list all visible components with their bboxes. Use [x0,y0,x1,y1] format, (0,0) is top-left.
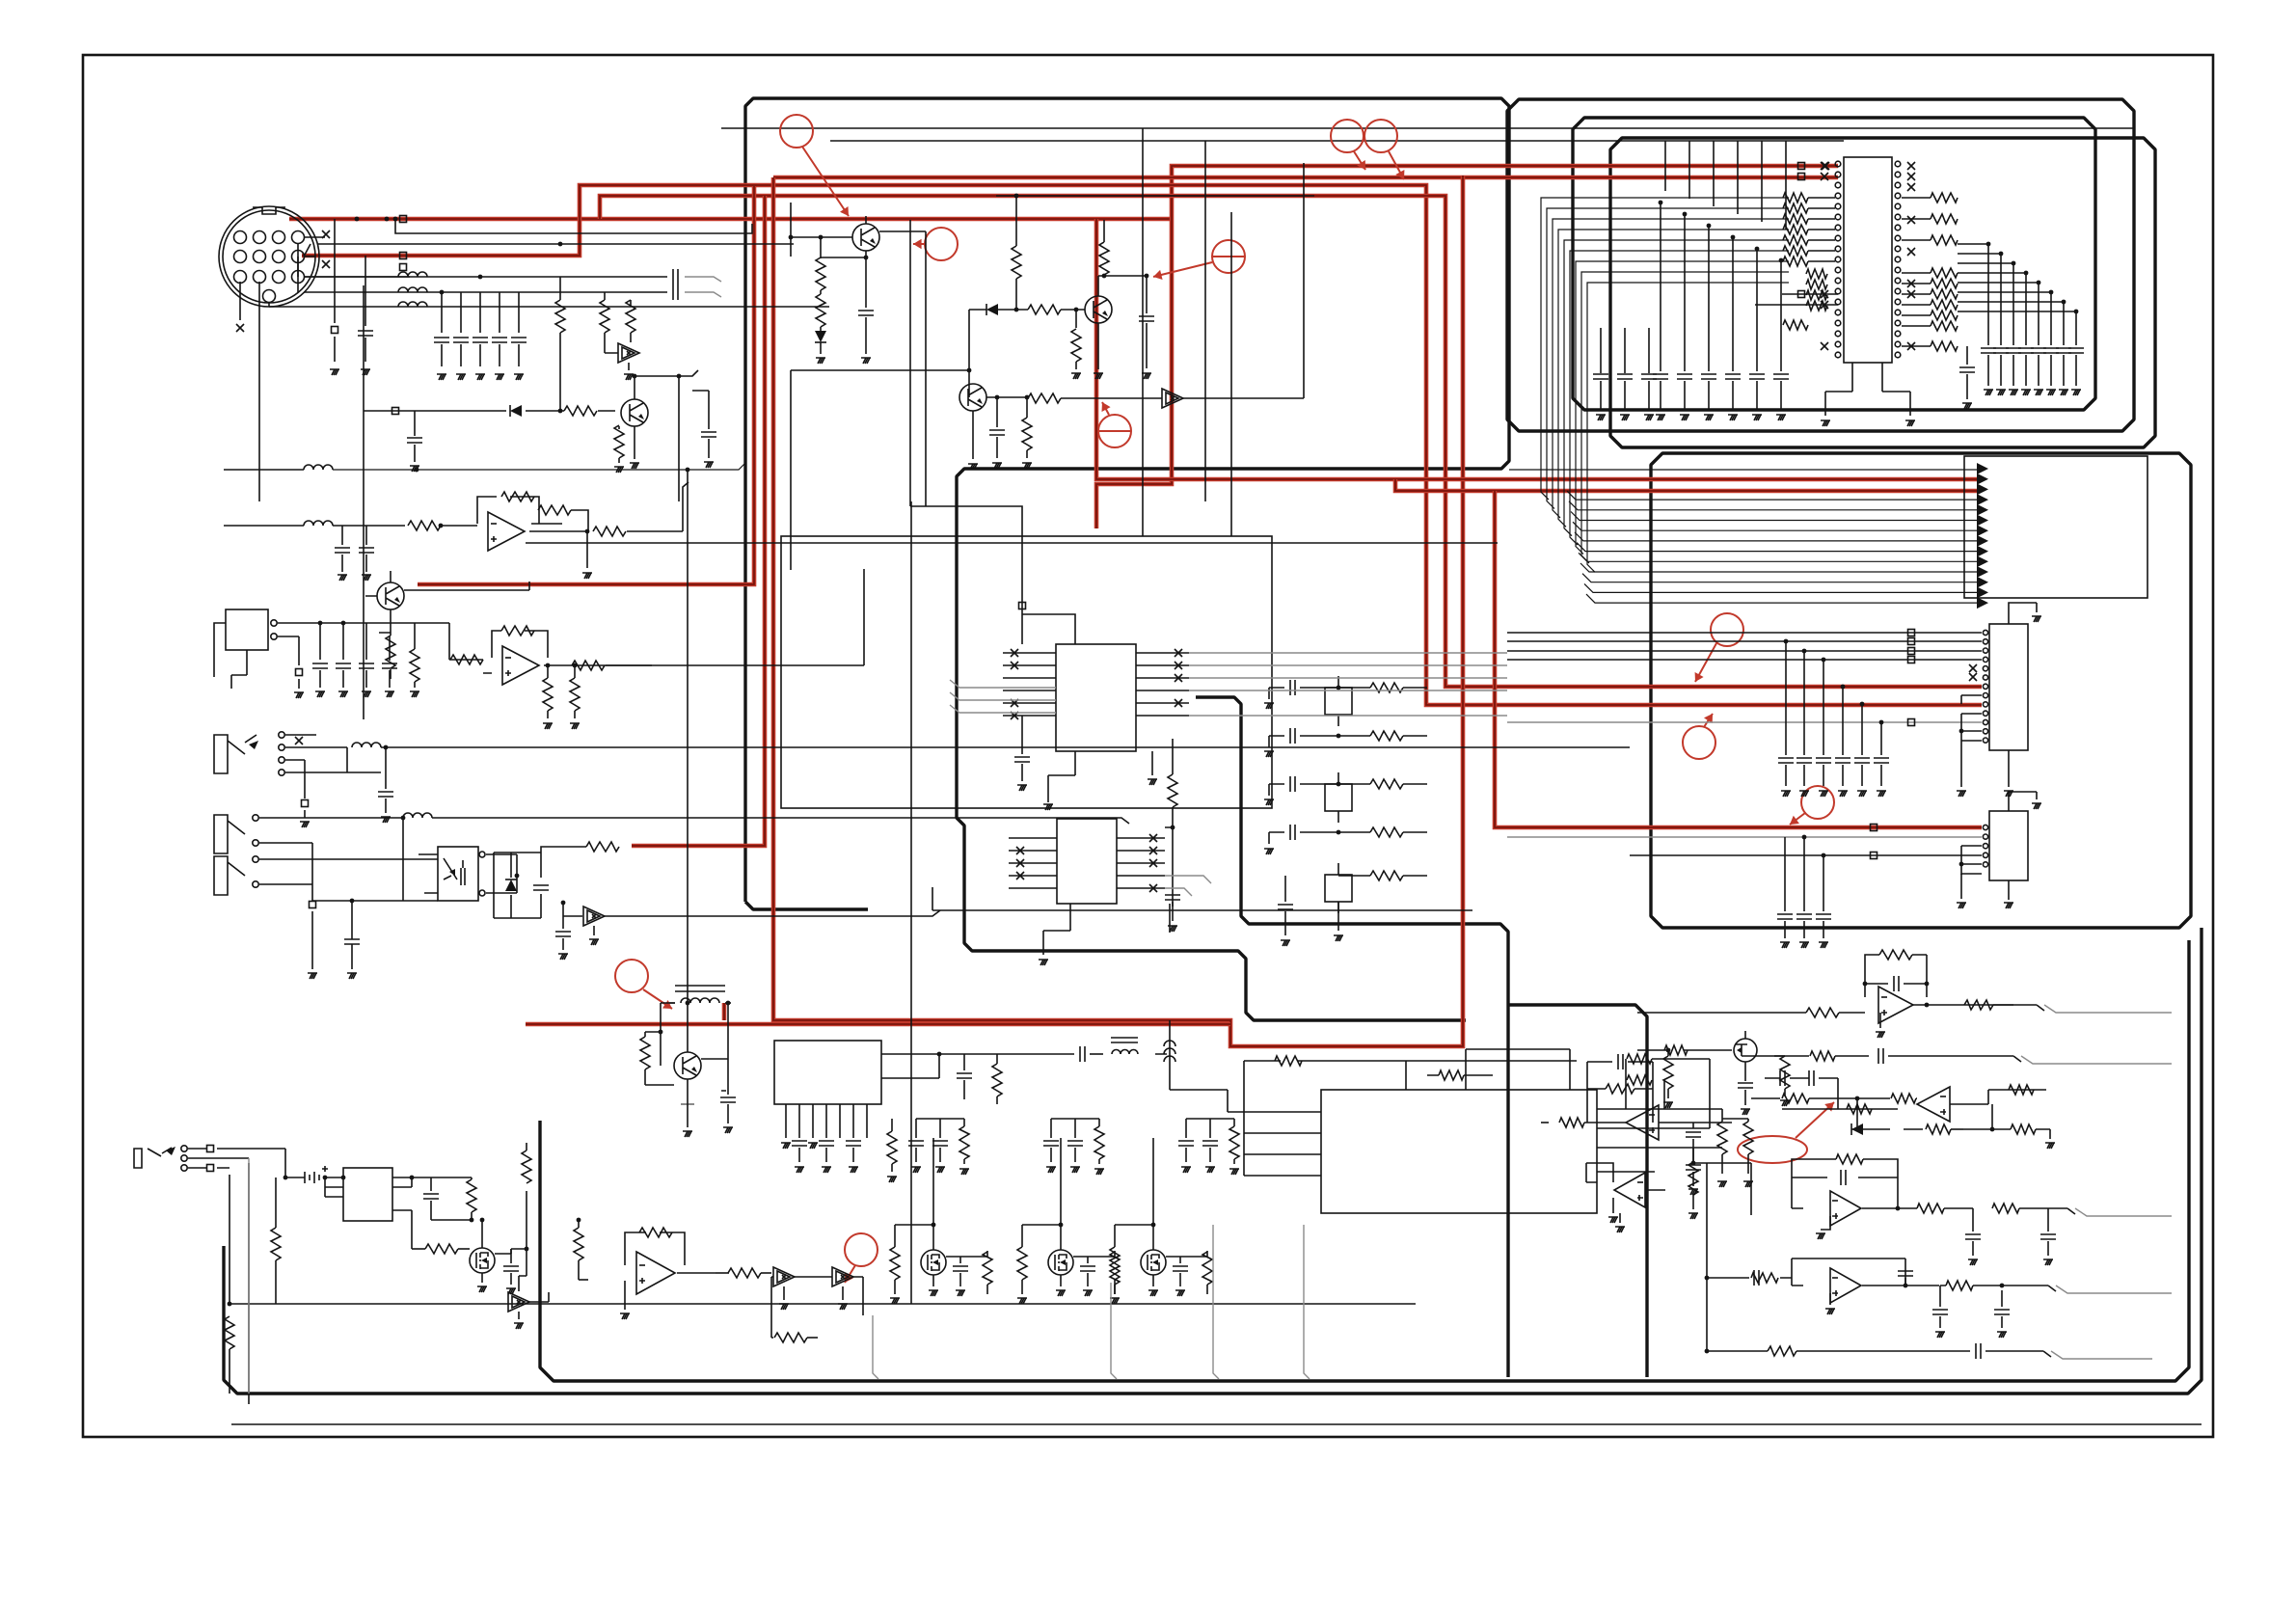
pin circle [1983,853,1987,857]
capacitor C34 [1993,348,2009,353]
ground G63 [1819,791,1828,797]
wire r top [526,1143,527,1191]
wire cap drop [365,256,366,362]
ground G4 [456,374,466,380]
wire rnet2 [1103,220,1105,276]
resistor R75 [1275,1056,1302,1066]
ground G118 [1743,1181,1753,1187]
ground G98 [890,1298,900,1304]
pin circle [254,251,266,263]
junction node [1059,1223,1064,1228]
resistor R97 [1836,1154,1863,1164]
capacitor C65 [503,1266,519,1271]
ground G112 [1094,1169,1104,1175]
capacitor C9 [701,432,716,437]
connector arrowheads [1977,463,1988,609]
wire IC6 right v [1169,904,1171,933]
wire m r [1021,1225,1023,1294]
ground G25 [381,817,391,823]
resistor R59 [522,1150,531,1183]
capacitor C44 [1816,758,1831,763]
capacitor C85 [2040,1234,2056,1239]
pin circle [1983,844,1987,849]
resistor R13 [501,626,534,636]
wire Q0 res [618,411,620,463]
junction node [967,368,972,373]
pin circle [253,815,258,821]
no-connect mark [1016,872,1024,880]
pin circle [1835,341,1841,347]
resistor R79 [1717,1122,1727,1154]
pin circle [1895,214,1901,220]
wire q3 net [791,310,969,570]
red highlighted wire red loop G [773,176,1463,1046]
wire dnet [969,309,1028,311]
pin circle [1895,352,1901,358]
pin circle [1983,834,1987,839]
wire IC1 left stubs [1808,198,1835,261]
wire m up [1152,1138,1154,1225]
capacitor C24 [1653,374,1668,379]
junction node [561,901,566,906]
wire micr [414,623,416,688]
wire br left v [1706,1163,1708,1351]
wire buf in [605,342,618,353]
inductor L8 [681,998,719,1003]
wire m r2 [1180,1251,1207,1294]
inductor L5 [304,521,333,526]
no-connect mark [1011,699,1018,707]
resistor R43 [1931,289,1958,299]
wire ub r gnd [1992,1129,2050,1139]
ground G129 [1816,1233,1825,1239]
ground G107 [911,1167,921,1173]
ground G34 [1142,373,1151,379]
IC display connector block [1964,456,2147,598]
capacitor C76 [1780,1070,1785,1086]
wire caps1 [342,526,366,572]
pad square [1908,648,1915,655]
junction node [2074,310,2079,314]
wire uf c [1940,1286,1946,1328]
wire obl gnd [624,1281,626,1310]
wire tc [1185,1119,1187,1162]
ground G60 [2032,616,2041,622]
wire grey fan left [950,680,1056,713]
pin circle [273,251,285,263]
ground G52 [2021,390,2031,395]
junction node [2062,300,2066,305]
wire m r2 [960,1251,987,1294]
wire mid rail b [932,887,1472,910]
junction node [819,235,824,240]
capacitor C90 [1976,1343,1981,1359]
capacitor C86 [1898,1271,1913,1276]
capacitor C29 [1773,374,1789,379]
wire r7 [275,1177,277,1304]
wire Q4 base long vertical [687,470,689,1003]
pin circle [1835,225,1841,230]
wire ic9 right wires [1597,1059,1722,1172]
ground G66 [1877,791,1886,797]
capacitor C69 [908,1141,924,1146]
no-connect mark [1175,662,1182,669]
junction node [415,468,419,473]
junction node [2037,281,2041,285]
wire m d [1115,1225,1153,1286]
junction node [439,524,444,528]
wire tc [1050,1119,1052,1162]
capacitor C33 [1981,348,1996,353]
capacitor C30 [1593,374,1608,379]
wire to opamp [333,525,405,527]
wire c [2038,355,2039,386]
wire IC1 left verticals [1661,203,1781,371]
wire grey drops to rails [873,1225,1310,1379]
ground G37 [1022,463,1032,469]
capacitor C88 [1932,1310,1948,1314]
wire pin row h3 [269,302,670,307]
resistor R14 [572,661,605,670]
capacitor C52 [1290,680,1295,695]
wire j1 pad [304,810,306,818]
capacitor C38 [2043,348,2059,353]
wire A1 plus rail [526,542,1498,544]
wire cap drop [441,292,443,366]
wire ic5 cap [1021,716,1023,781]
resistor R51 [1370,827,1403,837]
pin circle [234,271,247,284]
junction node [546,663,551,668]
wire connector traces [240,237,410,302]
op-amp U7 [636,1252,675,1294]
diode D-rect [505,880,517,891]
wire fb1b [571,510,588,531]
junction node [284,1176,288,1180]
capacitor C22 [1139,316,1154,321]
wire drop r [229,1349,230,1394]
wire UR2 top power [2009,792,2037,811]
resistor R74 [1229,1126,1239,1159]
wire xc3 [1284,876,1286,935]
wire jack2 wires [259,818,438,901]
pin circle [279,732,284,738]
red annotation circle A1 [780,115,813,148]
pin circle [181,1155,187,1161]
connector jack J4 [214,856,245,895]
capacitor C6 [473,338,488,342]
ground G82 [1334,935,1343,941]
diode D2 [815,331,826,342]
wire op2 in [449,623,492,673]
junction node [1705,1349,1710,1354]
MOSFET Q8 [921,1250,946,1275]
ground G10 [614,467,624,473]
resistor R34 [1806,280,1827,289]
junction node [480,1218,485,1223]
inductor L1 [398,272,427,277]
op-amp U11 [1626,1105,1659,1140]
no-connect mark [1969,673,1977,681]
no-connect mark [1149,847,1157,854]
diode D4 [1851,1123,1863,1135]
red highlighted wire red bus B [302,185,1982,705]
ground G88 [808,1143,818,1149]
resistor R21 [1099,242,1109,275]
pad square [1908,638,1915,645]
wire UR2 grey input [1507,836,1982,838]
resistor R73 [1094,1126,1104,1159]
wire xr [1338,831,1427,833]
resistor R54 [640,1037,650,1069]
junction node [2024,271,2029,276]
pin circle [181,1165,187,1171]
pin circle [1835,331,1841,337]
ground G90 [849,1167,858,1173]
wire connector pin drops [240,277,364,719]
wire xc2 [1268,832,1270,844]
wire fb1 [477,497,587,531]
wire drop [1861,704,1863,755]
ground G36 [992,463,1002,469]
wire uf fb [1792,1259,1905,1286]
pin circle [234,231,247,244]
wire reg chain right [997,1053,1167,1055]
ground G44 [1596,415,1606,420]
capacitor C35 [2006,348,2021,353]
wire h3 continue [670,306,829,308]
wire UR2 ic gnd [2008,880,2010,900]
ground G113 [1181,1167,1191,1173]
ground G119 [1615,1227,1625,1232]
pin circle [1835,288,1841,294]
transistor Q3 [852,224,879,251]
no-connect mark [236,324,244,332]
wire micc [319,623,321,688]
wire ud r [1692,1163,1694,1209]
ground G40 [1704,415,1714,420]
resistor R20 [1012,246,1021,279]
wire IC1 right verticals [1988,244,2076,345]
resistor R36 [1806,301,1827,311]
junction node [1959,862,1964,867]
red highlighted wire red bus C [600,196,1982,687]
junction node [1779,258,1784,263]
junction node [393,217,398,222]
junction node [573,663,578,668]
junction node [2049,290,2054,295]
capacitor C36 [2018,348,2034,353]
junction node [1102,274,1107,279]
junction node [1707,224,1712,229]
resistor R90 [1559,1118,1584,1127]
module outline right display box [1651,453,2191,928]
pin circle [479,852,485,857]
inductor L2 [398,287,427,292]
junction node [1014,194,1019,199]
wire IC1 columns [1665,141,1786,230]
wire mos down [526,1249,527,1276]
pin circle [1835,267,1841,273]
ground G131 [1997,1332,2007,1338]
ground G62 [1799,791,1809,797]
wire ic9 to out [1782,1078,1898,1109]
IC U-R1 [1989,624,2028,750]
ground G85 [723,1127,733,1133]
resistor R88 [1780,1056,1790,1089]
wire IC1 right horizontals [1958,244,2076,311]
wire c [1780,381,1782,410]
resistor R38 [1931,193,1958,203]
capacitor C47 [1874,758,1889,763]
ground G108 [935,1167,945,1173]
ground G74 [1017,785,1027,791]
pin circle [1895,225,1901,230]
junction node [470,1218,474,1223]
ground G124 [1608,1217,1618,1223]
pin circle [279,770,284,775]
pin circle [1835,320,1841,326]
wire cp [721,1059,728,1123]
module outline bottom-right corner [1508,1005,1647,1377]
resistor R23 [1071,329,1081,362]
ground G45 [1620,415,1630,420]
wire c [1732,381,1734,410]
pin circle [1835,246,1841,252]
pin circle [263,290,276,303]
IC power regulator [774,1041,881,1104]
resistor R30 [1783,235,1808,245]
pin circle [1835,352,1841,358]
ground G127 [1968,1259,1978,1265]
resistor R18 [816,257,825,290]
no-connect mark [1907,280,1915,287]
junction node [1666,1048,1671,1053]
wire micc [365,623,367,688]
pin circle [1895,278,1901,284]
wire ua in [1637,1012,1865,1014]
wire drop2 [1861,765,1863,786]
capacitor C10 [407,438,422,443]
ground G110 [1046,1167,1056,1173]
wire UR2 bracket [1961,846,1982,875]
wire ub in chain [1751,1097,1780,1099]
resistor R10 [386,636,395,668]
resistor R70 [1110,1247,1120,1280]
no-connect mark [322,260,330,268]
wire jf r2 [1784,1056,1786,1096]
pin circle [292,231,305,244]
wire xc2 [1268,688,1270,699]
capacitor C5 [453,338,469,342]
ground G9 [630,463,639,469]
capacitor C67 [1080,1266,1095,1271]
wire long top fan line left [333,463,745,470]
wire ua fb2 [1865,983,1927,985]
pin circle [1895,203,1901,209]
wire micc2 [389,636,391,688]
junction node [1337,686,1341,690]
pin circle [1983,711,1987,716]
resistor R2 [600,300,609,333]
pad square [1871,853,1877,859]
wire cap drop [499,292,500,366]
capacitor C14 [336,663,351,668]
capacitor C12 [359,548,374,553]
wire m r [894,1225,896,1294]
ground G58 [1957,791,1966,797]
resistor R42 [1931,279,1958,288]
ground G41 [1728,415,1738,420]
red annotation circle A9 [1711,613,1743,646]
no-connect mark [1011,662,1018,669]
wire regc [963,1054,965,1099]
wire Qmid [365,571,391,633]
wire t top [1051,1118,1099,1120]
ground G2 [361,369,370,375]
capacitor C77 [1809,1070,1814,1086]
wire Q1 cap gnd [865,317,867,354]
resistor R99 [1992,1204,2019,1213]
wire jfet out3 [1888,1056,2021,1062]
pin circle [1835,299,1841,305]
resistor R94 [2009,1085,2034,1095]
ground G126 [2045,1143,2055,1149]
pin circle [479,890,485,896]
pin circle [1895,257,1901,262]
capacitor C21 [858,311,874,315]
pad square [296,669,303,676]
wire xt [1337,676,1339,726]
junction node [1705,1276,1710,1281]
junction node [2000,1284,2005,1288]
capacitor C56 [1278,905,1293,909]
wire cap drop [518,292,520,366]
ground G80 [1264,849,1274,854]
connector jack J-bot [134,1148,172,1168]
wire uc fb [1587,1062,1653,1123]
no-connect mark [1149,834,1157,842]
pin circle [1895,331,1901,337]
wire xc [1269,783,1338,785]
resistor R55 [887,1131,897,1164]
pad square [207,1146,214,1152]
wire cap drop [479,292,481,366]
junction node [323,1176,328,1180]
wire Q0 out right [679,370,698,376]
ground G47 [1821,420,1830,426]
pad square [302,800,309,807]
wire x945 long vertical [910,501,912,1304]
capacitor C26 [1701,374,1716,379]
junction node [1855,1096,1860,1101]
capacitor C16 [382,663,397,668]
wire tc [915,1119,917,1162]
wire drop [1842,687,1844,755]
capacitor C50 [1777,914,1793,919]
wire c [1648,328,1650,410]
wire Q2 em gnd [1075,362,1077,369]
ground G117 [1717,1181,1727,1187]
capacitor C58 [720,1097,736,1102]
capacitor C84 [1965,1234,1981,1239]
wire pad drop [334,219,336,362]
wire Q1 d gnd [820,342,822,354]
wire center c [1172,902,1174,921]
wire long black y253 [304,244,794,257]
pin circle [1895,341,1901,347]
wire m r [1114,1225,1116,1294]
